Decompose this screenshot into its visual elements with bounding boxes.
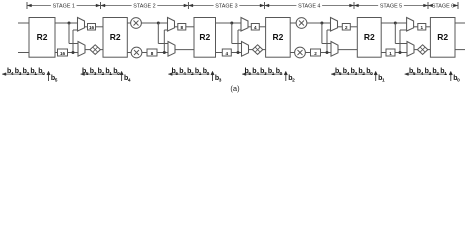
control bits label stage6: b5b4b3b2b1 select b0 [405,68,461,84]
delay box 8 B2t [178,24,186,31]
wire S4 top out [290,22,296,24]
svg-text:3: 3 [219,78,222,84]
svg-text:5: 5 [339,71,342,77]
multiplier X2t [131,18,142,29]
svg-text:4: 4 [421,71,424,77]
svg-text:4: 4 [226,51,229,56]
delay box 2 B4t [342,24,350,31]
multiplier X2b [131,47,142,58]
svg-text:STAGE 6: STAGE 6 [432,4,454,10]
svg-text:1: 1 [444,71,447,77]
svg-text:5: 5 [55,78,58,84]
mux M5t (upper) [407,18,414,32]
mux M1b (lower) [78,42,85,57]
wire output top [455,22,465,24]
node J3t [230,22,233,25]
R2 butterfly stage 3 [194,18,216,58]
svg-text:4: 4 [254,25,257,30]
node J1t [68,22,71,25]
cross wire T5 bottom-to-upper-mux [400,30,407,53]
wire D1 to R2-2 [100,49,103,51]
wire B1t to R2-2 [96,26,104,28]
svg-text:1: 1 [272,71,275,77]
svg-text:5: 5 [86,71,89,77]
svg-text:1: 1 [199,71,202,77]
wire B5t to R2-6 [426,26,431,28]
svg-text:R2: R2 [272,32,283,42]
wire M2t out [175,26,178,28]
wire X2b to B2b [142,52,147,54]
wire S5 top out [381,22,406,24]
wire M3t out [248,26,251,28]
wire S2 bottom out [127,52,131,54]
svg-text:8: 8 [151,51,154,56]
wire B3b to mux [231,52,241,54]
wire input top [18,22,29,24]
R2 butterfly stage 6 [430,18,455,58]
control bits label stage3: b5b4b2b1b0 select b3 [168,68,222,84]
svg-text:0: 0 [370,71,373,77]
delay box 1 B5b [386,49,395,56]
delay box 4 B3t [251,24,259,31]
wire B4b to mux [321,52,332,54]
svg-text:1: 1 [109,71,112,77]
svg-text:STAGE 5: STAGE 5 [380,4,402,10]
svg-text:2: 2 [314,51,317,56]
delay box 2 B4b [311,49,321,56]
control bits label stage5: b5b4b3b2b0 select b1 [331,68,385,84]
multiplier X4b [295,47,306,58]
cross wire T4 bottom-to-upper-mux [327,30,331,53]
wire B3t to R2-4 [259,26,265,28]
delay box 1 B5t [418,24,426,31]
wire B5b to mux [395,52,407,54]
node J3b [237,51,240,54]
mux M3t (upper) [241,18,248,32]
wire S5 bottom out [381,52,386,54]
svg-text:8: 8 [181,25,184,30]
multiplier X4t [296,18,307,29]
cross wire T5 top-to-lower-mux [395,23,407,44]
dimension span STAGE 1 [27,2,101,10]
svg-text:3: 3 [264,71,267,77]
svg-text:R2: R2 [37,32,48,42]
cross wire T2 top-to-lower-mux [158,23,168,44]
cross wire T3 top-to-lower-mux [232,23,242,44]
svg-text:4: 4 [183,71,186,77]
wire M5t out [414,26,418,28]
svg-text:3: 3 [355,71,358,77]
delay box 4 B3b [222,49,231,56]
mux M5b (lower) [407,42,414,57]
svg-text:2: 2 [27,71,30,77]
wire X4t to mux [307,22,331,24]
svg-text:2: 2 [292,78,295,84]
cross wire T1 bottom-to-upper-mux [73,30,78,53]
R2 butterfly stage 2 [103,18,127,58]
cross wire T1 top-to-lower-mux [69,23,78,44]
delay box 16 B1t [88,24,96,31]
mux M3b (lower) [242,42,249,57]
mux M2b (lower) [168,42,175,57]
wire D3 to R2-4 [263,49,266,51]
svg-text:5: 5 [248,71,251,77]
svg-text:STAGE 3: STAGE 3 [215,4,237,10]
wire S4 bottom out [290,52,295,54]
rotator diamond D3 [252,45,262,55]
node J1b [72,51,75,54]
node J2b [163,51,166,54]
wire X2t to mux [141,22,167,24]
svg-text:0: 0 [280,71,283,77]
node J4t [320,22,323,25]
R2 butterfly stage 4 [266,18,291,58]
svg-text:0: 0 [117,71,120,77]
wire M4t out [338,26,343,28]
dimension span STAGE 5 [355,2,429,10]
svg-text:STAGE 4: STAGE 4 [298,4,320,10]
svg-text:5: 5 [413,71,416,77]
svg-text:0: 0 [457,78,460,84]
svg-text:R2: R2 [199,32,210,42]
wire B1b to mux [68,52,79,54]
svg-text:16: 16 [89,25,95,30]
svg-text:2: 2 [102,71,105,77]
wire M4b to R2-5 [338,49,357,51]
delay box 16 B1b [58,49,68,56]
node J4b [326,51,329,54]
svg-text:2: 2 [191,71,194,77]
svg-text:16: 16 [60,51,66,56]
mux M1t (upper) [78,18,85,32]
control bits label stage1: b4b3b2b1b0 select b5 [2,68,58,84]
rotator diamond D5 [417,45,427,55]
wire S2 top out [127,22,131,24]
dimension span STAGE 2 [101,2,188,10]
wire S3 top out [216,22,242,24]
svg-text:2: 2 [345,25,348,30]
cross wire T4 top-to-lower-mux [322,23,331,44]
wire S1 top out [55,22,78,24]
svg-text:STAGE 1: STAGE 1 [53,4,75,10]
wire output bottom [455,49,465,51]
svg-text:R2: R2 [110,32,121,42]
wire M2b to R2-3 [175,49,194,51]
dimension span STAGE 6 [429,2,459,10]
svg-text:4: 4 [128,78,131,84]
svg-text:3: 3 [429,71,432,77]
svg-text:1: 1 [34,71,37,77]
svg-text:4: 4 [11,71,14,77]
wire B4t to R2-5 [350,26,357,28]
control bits label stage2: b5b3b2b1b0 select b4 [81,68,131,84]
cross wire T3 bottom-to-upper-mux [238,30,241,53]
wire M3b to D3 [249,49,253,51]
wire B2b to mux [157,52,168,54]
svg-text:2: 2 [362,71,365,77]
cross wire T2 bottom-to-upper-mux [164,30,167,53]
wire M1t out [85,26,88,28]
svg-text:(a): (a) [230,84,240,93]
wire M1b to D1 [85,49,90,51]
R2 butterfly stage 5 [357,18,381,58]
delay box 8 B2b [147,49,157,56]
rotator diamond D1 [90,45,100,55]
svg-text:4: 4 [256,71,259,77]
mux M4t (upper) [331,18,338,32]
wire S3 bottom out [216,52,223,54]
svg-text:1: 1 [421,25,424,30]
svg-text:0: 0 [42,71,45,77]
svg-text:STAGE 2: STAGE 2 [133,4,155,10]
node J2t [157,22,160,25]
svg-text:3: 3 [94,71,97,77]
control bits label stage4: b5b4b3b1b0 select b2 [242,68,295,84]
svg-text:0: 0 [207,71,210,77]
dimension span STAGE 4 [265,2,354,10]
svg-text:R2: R2 [364,32,375,42]
dimension span STAGE 3 [189,2,265,10]
svg-text:5: 5 [175,71,178,77]
svg-text:4: 4 [347,71,350,77]
svg-text:R2: R2 [437,32,448,42]
svg-text:1: 1 [382,78,385,84]
wire X4b to B4b [305,52,310,54]
mux M2t (upper) [168,18,175,32]
node J5t [394,22,397,25]
caption (a) [230,84,240,93]
svg-text:3: 3 [19,71,22,77]
wire M5b to D5 [414,49,417,51]
node J5b [399,51,402,54]
mux M4b (lower) [331,42,338,57]
svg-text:2: 2 [436,71,439,77]
svg-text:1: 1 [389,51,392,56]
wire D5 to R2-6 [428,49,431,51]
wire input bottom [18,52,29,54]
wire B2t to R2-3 [186,26,194,28]
R2 butterfly stage 1 [29,18,55,58]
wire S1 bottom out [55,52,58,54]
